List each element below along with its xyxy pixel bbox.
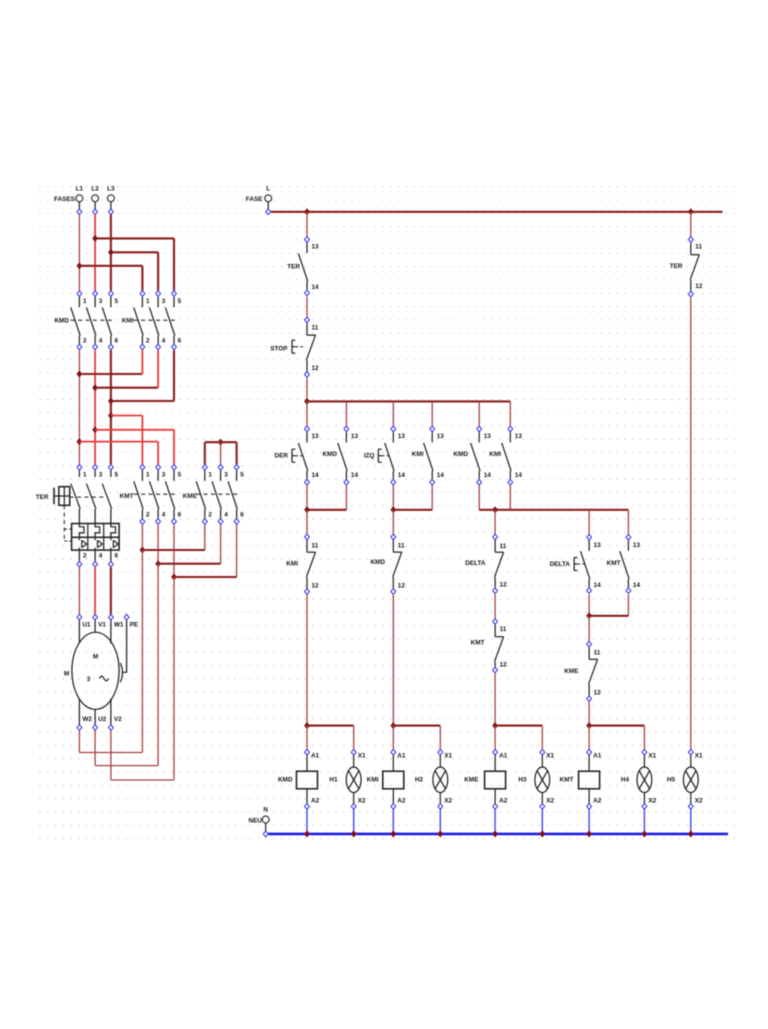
coil KMD A1-A2 [305,750,310,755]
svg-text:11: 11 [594,650,601,657]
wire KME output 2 drop [204,525,206,550]
wire delta drop 2 to motor U2 loop [157,564,159,766]
svg-text:14: 14 [633,582,641,589]
svg-text:DELTA: DELTA [550,561,571,568]
node phase A to KMT pole 3 swap wire [77,438,83,445]
svg-text:M: M [93,654,98,661]
lamp H4 X1-X2 [642,750,647,755]
svg-text:14: 14 [515,472,523,479]
svg-text:KME: KME [183,493,198,500]
node neutral bus junctions [304,830,310,837]
wire TER 14 to STOP 11 [306,297,308,317]
wire TER NC 12 down to lamp H5 [690,297,692,749]
svg-text:11: 11 [500,543,507,550]
svg-text:KMI: KMI [489,451,501,458]
svg-text:1: 1 [146,472,150,479]
svg-text:L2: L2 [91,186,99,193]
svg-text:L3: L3 [107,186,115,193]
lamp H2 X1-X2 [438,750,443,755]
node KME star point bar [218,439,224,446]
wire KME NC 12 down to KMT coil node [588,702,590,726]
wire KMD NC 12 down to KMI coil node [392,595,394,726]
wire KMI NC 12 down to KMD coil node [306,595,308,726]
svg-text:PE: PE [130,622,139,629]
svg-text:1: 1 [146,298,150,305]
svg-text:2: 2 [146,337,150,344]
svg-text:H1: H1 [329,777,338,784]
svg-text:3: 3 [224,472,228,479]
wire KME output 4 drop [220,525,222,564]
svg-text:1: 1 [83,472,87,479]
wire delta drop 3 to motor V2 loop [173,577,175,780]
wire H4 X2 to neutral bus [643,809,645,834]
svg-text:14: 14 [312,284,320,291]
node branch2 join [392,486,394,510]
svg-text:STOP: STOP [270,346,288,353]
TER bottom terminals 2 4 6 [77,562,82,567]
svg-text:FASES: FASES [54,196,76,203]
svg-text:14: 14 [398,472,406,479]
coil KME A1-A2 [493,750,498,755]
svg-text:KMI: KMI [286,561,298,568]
svg-text:KMD: KMD [278,777,293,784]
node DELTA-KMT parallel join [588,595,590,616]
svg-text:14: 14 [351,472,359,479]
wire right branch to TER NC [690,212,692,237]
svg-text:2: 2 [83,337,87,344]
svg-text:KMD: KMD [453,451,468,458]
svg-text:4: 4 [99,337,103,344]
svg-text:2: 2 [146,512,150,519]
svg-text:KMI: KMI [122,318,134,325]
svg-text:X1: X1 [358,753,366,760]
svg-text:6: 6 [115,337,119,344]
node KMT coil feed junction [586,722,592,729]
svg-text:6: 6 [240,512,244,519]
wire neutral bus [268,833,728,836]
svg-text:13: 13 [484,433,492,440]
node KME coil feed junction [492,722,498,729]
svg-text:5: 5 [178,472,182,479]
svg-text:A2: A2 [311,798,320,805]
svg-text:6: 6 [178,512,182,519]
svg-text:5: 5 [115,472,119,479]
svg-text:IZQ: IZQ [364,453,375,460]
svg-text:12: 12 [594,690,602,697]
svg-text:KMT: KMT [560,777,574,784]
wire motor U2 loop back [94,731,96,766]
svg-text:X2: X2 [648,798,656,805]
svg-text:DELTA: DELTA [465,560,486,567]
svg-text:KMT: KMT [120,493,134,500]
wire L3 vertical to KMD pole 5 [110,215,112,291]
svg-text:H4: H4 [621,777,630,784]
wire branch1 to KMI NC [306,510,308,534]
wire node3 to DELTA pushbutton 13 [588,510,590,534]
svg-text:W2: W2 [82,716,92,723]
svg-text:A2: A2 [499,798,508,805]
svg-text:11: 11 [695,244,702,251]
svg-text:2: 2 [208,512,212,519]
wire bus drop to TER 13 [306,212,308,237]
svg-text:A2: A2 [397,798,406,805]
svg-text:X2: X2 [358,798,366,805]
svg-text:13: 13 [633,542,641,549]
svg-text:4: 4 [224,512,228,519]
svg-text:X2: X2 [546,798,554,805]
svg-text:13: 13 [312,433,320,440]
wire KMD A2 to neutral bus [306,809,308,834]
svg-text:12: 12 [398,583,406,590]
svg-text:12: 12 [312,365,320,372]
svg-text:1: 1 [83,298,87,305]
svg-text:H2: H2 [415,777,424,784]
node phase B to KMT pole 5 swap wire [92,426,98,433]
svg-text:TER: TER [36,494,49,501]
wire KMD output 4 down to TER pole 3 [94,350,96,464]
wire KME A2 to neutral bus [494,809,496,834]
svg-text:W1: W1 [114,622,124,629]
wire TER 2 to motor U1 [78,567,80,614]
svg-text:13: 13 [515,433,523,440]
svg-text:H3: H3 [518,777,527,784]
svg-text:NEU: NEU [249,818,263,825]
wire STOP 12 to control bus 2 [306,378,308,402]
wire L1 vertical to KMD pole 1 [78,215,80,291]
svg-text:V1: V1 [98,622,106,629]
svg-text:KMT: KMT [471,640,485,647]
svg-text:13: 13 [312,244,320,251]
svg-text:13: 13 [437,433,445,440]
svg-text:3: 3 [162,298,166,305]
wire KMT output 4 to node U2 [157,525,159,564]
svg-text:X1: X1 [444,753,452,760]
node control bus 2 [304,398,310,405]
svg-text:3: 3 [99,298,103,305]
svg-text:KME: KME [464,777,479,784]
node L3 to KMI pole 3 crossover [108,249,114,256]
svg-text:H5: H5 [667,777,676,784]
node KMD coil feed junction [304,722,310,729]
svg-text:12: 12 [312,583,320,590]
node KMD4-KMI4 output tie [92,384,98,391]
wire TER 4 to motor V1 [94,567,96,614]
lamp H3 X1-X2 [540,750,545,755]
node KMD2-KMI2 output tie [77,370,83,377]
wire KMD output 6 down to TER pole 5 [110,350,112,464]
node KMI coil feed junction [390,722,396,729]
node branch1 join [306,486,308,510]
wire node3 to KMT aux 13 [627,510,629,534]
svg-text:12: 12 [695,283,703,290]
motor PE earth connection [122,620,127,672]
svg-text:A1: A1 [311,753,320,760]
wire branch2 to KMD NC [392,510,394,534]
svg-text:KMD: KMD [322,451,337,458]
svg-text:L1: L1 [76,186,84,193]
svg-text:X1: X1 [546,753,554,760]
node bus to right TER branch [688,208,694,215]
node L1 to KMI pole 1 crossover [77,262,83,269]
wire H3 X2 to neutral bus [541,809,543,834]
svg-text:14: 14 [312,472,320,479]
node L2 to KMI pole 5 crossover [92,235,98,242]
svg-text:11: 11 [312,543,319,550]
svg-text:TER: TER [287,264,300,271]
coil KMT A1-A2 [587,750,592,755]
svg-text:3: 3 [99,472,103,479]
wire delta drop 1 to motor W2 loop [141,550,143,753]
TER mechanical dashed link [63,505,65,541]
wire KMT A2 to neutral bus [588,809,590,834]
svg-text:FASE: FASE [246,196,263,203]
svg-text:13: 13 [398,433,406,440]
lamp H5 X1-X2 [689,750,694,755]
wire control top bus [271,211,723,213]
wire L2 vertical to KMD pole 3 [94,215,96,291]
svg-text:14: 14 [484,472,492,479]
svg-text:6: 6 [178,337,182,344]
svg-text:N: N [263,807,268,814]
wire motor W2 loop back [78,731,80,753]
svg-text:KMT: KMT [607,560,621,567]
svg-text:1: 1 [208,472,212,479]
svg-text:X2: X2 [444,798,452,805]
svg-text:12: 12 [500,582,508,589]
svg-text:6: 6 [115,553,119,560]
node phase C to KMT pole 1 swap wire [108,412,114,419]
svg-text:DER: DER [275,453,289,460]
wire H5 X2 to neutral bus [690,809,692,834]
lamp H1 X1-X2 [351,750,356,755]
wire KMD output 2 down to TER pole 1 [78,350,80,464]
node KMT4-KME4 tie [155,560,161,567]
svg-text:5: 5 [178,298,182,305]
wire DELTA NC 12 to KMT NC 11 [494,594,496,618]
svg-text:KMI: KMI [367,777,379,784]
node KMT6-KME6 tie [171,573,177,580]
wire KMT output 6 to node V2 [173,525,175,577]
wire TER 6 to motor W1 [110,567,112,614]
wire join to KME NC 11 [588,616,590,641]
svg-text:A2: A2 [593,798,602,805]
svg-text:U2: U2 [98,716,107,723]
svg-text:14: 14 [437,472,445,479]
wire motor V2 loop back [110,731,112,781]
svg-text:KME: KME [564,668,579,675]
svg-text:5: 5 [115,298,119,305]
svg-text:12: 12 [500,662,508,669]
svg-text:3: 3 [87,676,91,683]
svg-text:11: 11 [500,626,507,633]
svg-text:A1: A1 [397,753,406,760]
node branch3 join [478,486,480,510]
TER actuator crossed box [53,488,55,505]
wire H1 X2 to neutral bus [353,809,355,834]
node bus to TER branch [304,208,310,215]
TER overload relay box [72,524,120,551]
svg-text:X2: X2 [695,798,703,805]
svg-text:TER: TER [670,263,683,270]
svg-text:4: 4 [162,337,166,344]
wire KMT NC 12 down to KME coil node [494,673,496,725]
coil KMI A1-A2 [391,750,396,755]
wire KMT output 2 to node W2 [141,525,143,550]
node KMT2-KME2 tie [140,546,146,553]
wire H2 X2 to neutral bus [439,809,441,834]
svg-text:M: M [64,671,69,678]
svg-text:X1: X1 [695,753,703,760]
node KMD6-KMI6 output tie [108,397,114,404]
svg-text:2: 2 [83,553,87,560]
svg-text:4: 4 [162,512,166,519]
svg-text:A1: A1 [499,753,508,760]
svg-text:KMI: KMI [412,451,424,458]
svg-text:L: L [266,186,270,193]
svg-text:11: 11 [398,543,405,550]
motor M3 three phase [77,615,82,620]
wire KME output 6 drop [236,525,238,577]
wire branch3 to DELTA NC [494,510,496,534]
svg-text:U1: U1 [82,622,91,629]
svg-text:A1: A1 [593,753,602,760]
svg-text:5: 5 [240,472,244,479]
svg-text:3: 3 [162,472,166,479]
wire KMI A2 to neutral bus [392,809,394,834]
svg-text:13: 13 [351,433,359,440]
motor bottom terminals W2 U2 V2 [77,725,82,730]
svg-text:11: 11 [312,325,319,332]
svg-text:KMD: KMD [54,318,69,325]
wire drops from bus2 to contact row [306,401,308,426]
svg-text:14: 14 [594,582,602,589]
svg-text:V2: V2 [114,716,122,723]
svg-text:13: 13 [594,542,602,549]
svg-text:X1: X1 [648,753,656,760]
svg-text:KMD: KMD [370,559,385,566]
svg-text:4: 4 [99,553,103,560]
